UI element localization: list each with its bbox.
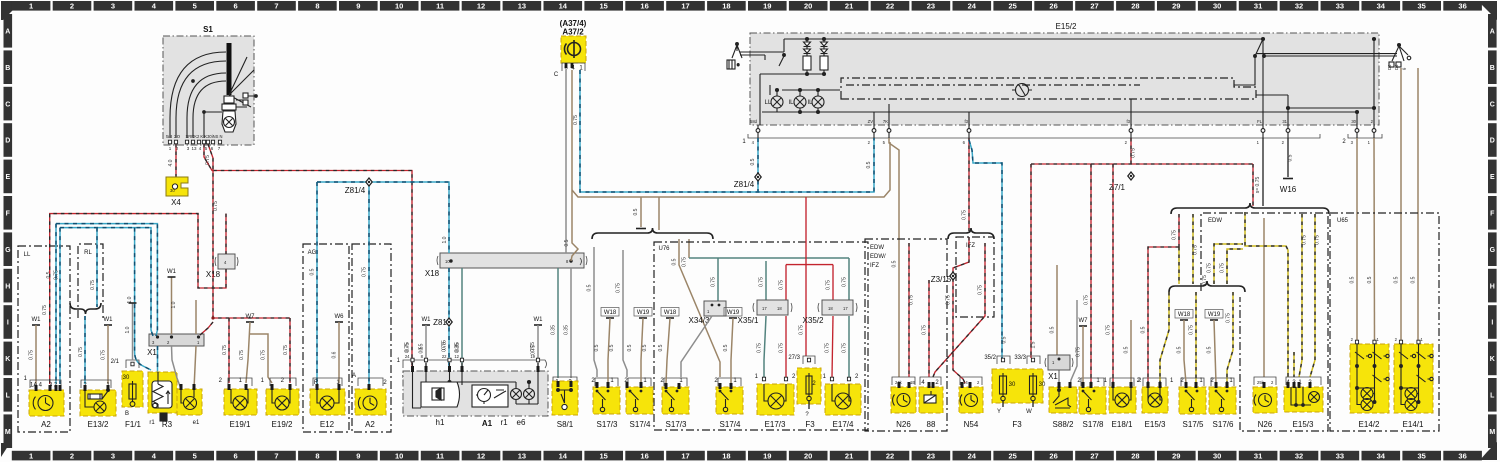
connector X4 (166, 177, 188, 196)
svg-text:27: 27 (1090, 451, 1098, 460)
wire teal bus U76 (689, 257, 849, 259)
symbol N54 (960, 394, 977, 407)
connector X18 long bar (437, 253, 587, 268)
svg-text:S17/8: S17/8 (1083, 420, 1104, 429)
svg-text:S1: S1 (203, 25, 213, 34)
lamp E15/3 right (1284, 387, 1323, 412)
svg-text:0.75: 0.75 (842, 343, 848, 353)
svg-text:RL: RL (84, 250, 92, 256)
svg-text:8: 8 (315, 451, 319, 460)
E18/1 connector (1110, 378, 1134, 386)
svg-text:1.0: 1.0 (171, 301, 177, 308)
ground terminal W16 (1283, 178, 1293, 180)
E14/1 internals (1399, 344, 1433, 405)
clock symbol A2 (33, 396, 53, 411)
33/3 connector (1027, 356, 1040, 364)
svg-text:5: 5 (193, 451, 197, 460)
svg-text:0.5: 0.5 (723, 344, 729, 351)
svg-text:0.75: 0.75 (239, 350, 245, 360)
svg-text:25: 25 (1009, 2, 1017, 11)
svg-text:e6: e6 (517, 418, 526, 427)
svg-text:17: 17 (681, 2, 689, 11)
wire blue A37/2 pin1 to ZV (580, 70, 874, 192)
wire gray X1 to e1 pin1 (172, 346, 182, 389)
wire red to fuse F3 27/3 (805, 265, 807, 356)
svg-text:33: 33 (1336, 2, 1344, 11)
svg-text:4.0: 4.0 (168, 159, 174, 166)
solder joint Z81 (445, 317, 453, 327)
wire blue f3 branch to F3 (969, 140, 1002, 358)
switch S17/8 (1079, 387, 1106, 414)
svg-text:19: 19 (763, 2, 771, 11)
svg-text:23: 23 (927, 451, 935, 460)
wire yellow to S17/6 pin2 (1227, 292, 1233, 383)
terminal W6 (335, 314, 345, 322)
wire red to E15/3L pin2 (1148, 247, 1179, 383)
antenna fork symbol D4 (1389, 44, 1411, 68)
terminal W1 b (104, 317, 114, 325)
clock symbol A2r (358, 396, 377, 410)
svg-text:7K: 7K (883, 119, 888, 124)
svg-text:U76: U76 (658, 246, 670, 252)
E13/2 connector (81, 380, 111, 388)
wire blue LL bus upper (56, 224, 157, 336)
switch symbol S17/4 (629, 390, 643, 412)
wire yellow E15/3r pin3 (1293, 352, 1295, 377)
svg-text:W1: W1 (104, 317, 114, 323)
lamp e6a in A1 (511, 389, 522, 400)
svg-text:0.75: 0.75 (946, 295, 952, 305)
splice brace IFZ (948, 228, 994, 239)
svg-text:30: 30 (1213, 2, 1221, 11)
svg-text:16: 16 (640, 451, 648, 460)
svg-text:0.75: 0.75 (616, 283, 622, 293)
wire gray W1e to A1 pin19 (537, 325, 539, 378)
S17/3 connector (595, 378, 618, 386)
svg-text:E15/3: E15/3 (1145, 420, 1166, 429)
svg-text:35: 35 (1418, 2, 1426, 11)
wire brown wiper bus to 7K (572, 142, 890, 197)
svg-text:1: 1 (29, 451, 33, 460)
svg-text:0.75: 0.75 (362, 267, 368, 277)
svg-text:I: I (7, 320, 9, 327)
svg-text:H: H (1490, 283, 1495, 290)
svg-text:0.75: 0.75 (978, 285, 984, 295)
svg-text:X35/2: X35/2 (803, 316, 824, 325)
svg-text:LL: LL (24, 252, 31, 258)
wire yellow to small brace b (1192, 214, 1194, 284)
wire teal X35/1 to E17/3 pin1 (764, 316, 766, 377)
svg-text:32: 32 (1295, 451, 1303, 460)
wire brown W1c to X1 (171, 277, 173, 334)
svg-text:0.75: 0.75 (42, 305, 48, 315)
wire yellow EDW loop a (1214, 244, 1243, 284)
switch symbol S17/4 (719, 390, 733, 412)
wire yellow EDW loop b (1227, 249, 1243, 284)
svg-text:X1: X1 (147, 348, 157, 357)
wire red X18s top (225, 214, 227, 254)
svg-text:3: 3 (111, 451, 115, 460)
N54 connector (960, 377, 982, 385)
svg-text:F3: F3 (1012, 420, 1022, 429)
wire green X18 to S8/1 pin1 (557, 268, 559, 378)
svg-text:r1: r1 (149, 420, 155, 426)
svg-text:Z81/4: Z81/4 (345, 186, 366, 195)
svg-text:FL: FL (1257, 119, 1263, 124)
svg-text:IFZ: IFZ (870, 263, 879, 269)
svg-text:23: 23 (927, 2, 935, 11)
svg-text:27: 27 (1090, 2, 1098, 11)
svg-text:W16: W16 (1280, 185, 1297, 194)
svg-text:36: 36 (1458, 2, 1466, 11)
wire red to X35/2 pin18 (832, 265, 834, 301)
svg-text:Z81/4: Z81/4 (734, 180, 755, 189)
svg-text:28: 28 (1131, 451, 1139, 460)
wire blue 58d drop (757, 138, 759, 192)
svg-text:S88/2: S88/2 (1053, 420, 1074, 429)
svg-text:I: I (1491, 320, 1493, 327)
svg-text:0.75: 0.75 (442, 342, 448, 352)
glovebox lamp E12 (310, 389, 345, 415)
svg-text:W: W (1026, 409, 1032, 415)
svg-text:10: 10 (395, 451, 403, 460)
wire W18b to S17/3u (666, 318, 670, 383)
wire tan to S17/4u pin1 (679, 239, 720, 377)
lamp IL in E15/2 (794, 96, 806, 108)
wire X1 to S88/2 (1058, 370, 1060, 387)
svg-text:19: 19 (763, 451, 771, 460)
svg-text:0.75: 0.75 (779, 343, 785, 353)
lamp box E17/4 (830, 377, 833, 381)
wire brown X1 to e1 pin2 (194, 346, 196, 389)
svg-text:W18: W18 (1178, 312, 1191, 318)
wire red X18s to A2 (50, 214, 226, 384)
svg-text:K: K (1490, 356, 1495, 363)
svg-text:13: 13 (518, 2, 526, 11)
splice brace wiper feed (592, 228, 713, 239)
switch S17/3 (593, 387, 620, 414)
svg-text:13: 13 (518, 451, 526, 460)
wire gray W1d to A1 pin8 (425, 325, 427, 378)
svg-text:2/1: 2/1 (111, 359, 120, 365)
svg-text:0.75: 0.75 (799, 325, 805, 335)
svg-text:C: C (1490, 101, 1495, 108)
svg-text:0.6: 0.6 (332, 351, 338, 358)
svg-text:14: 14 (963, 380, 968, 385)
terminal W19b (727, 310, 740, 318)
svg-text:6: 6 (234, 2, 238, 11)
wire teal to X34/3 (717, 258, 719, 301)
svg-text:0.75: 0.75 (759, 277, 765, 287)
svg-text:0.5: 0.5 (1367, 276, 1373, 283)
svg-text:L: L (6, 393, 11, 400)
svg-text:24: 24 (405, 354, 410, 359)
wire gray X34/3 to S17/3u pin2 (681, 316, 712, 377)
svg-text:0.75: 0.75 (1226, 313, 1232, 323)
svg-text:0.75: 0.75 (1106, 325, 1112, 335)
terminal W1 e (534, 317, 544, 325)
svg-text:E15/2: E15/2 (1056, 22, 1077, 31)
fuse F1/1 (122, 371, 143, 407)
fuse box F3 (992, 369, 1043, 403)
svg-text:0.75: 0.75 (222, 345, 228, 355)
wire green X18 to A1 pin12 (461, 268, 463, 378)
svg-text:D: D (5, 138, 10, 145)
svg-text:12: 12 (477, 451, 485, 460)
svg-text:0.75: 0.75 (213, 201, 219, 211)
svg-text:Z3/15: Z3/15 (931, 275, 952, 284)
svg-text:10: 10 (395, 2, 403, 11)
svg-text:E14/2: E14/2 (1359, 420, 1380, 429)
wire brown D4b to E14/1 (1417, 68, 1419, 342)
wire red brace drop (1178, 214, 1180, 247)
F3 stub W (1032, 401, 1034, 407)
svg-text:0.5: 0.5 (419, 343, 425, 350)
svg-text:7: 7 (274, 2, 278, 11)
svg-text:22: 22 (886, 2, 894, 11)
svg-text:30: 30 (1213, 451, 1221, 460)
svg-text:D4: D4 (1394, 64, 1399, 70)
svg-text:0.5: 0.5 (46, 271, 52, 278)
lamp LL in E15/2 (771, 96, 783, 108)
svg-text:18: 18 (828, 306, 833, 311)
splice brace EDW small (1169, 281, 1245, 292)
switch S17/3 (662, 387, 689, 414)
svg-text:W19: W19 (637, 310, 650, 316)
wire yellow to S17/5 pin2 (1195, 292, 1197, 383)
wire yellow to E15/3r pin4 (1245, 212, 1288, 377)
lamp E18/1 (1109, 387, 1136, 413)
svg-text:18: 18 (777, 306, 782, 311)
wire blue X18 to A1 pin22 (448, 268, 450, 378)
S17/8 connector (1081, 378, 1104, 386)
A1 internals (413, 363, 539, 408)
E19/1 connector (228, 378, 252, 386)
svg-text:17: 17 (843, 306, 848, 311)
svg-text:0.75: 0.75 (54, 270, 60, 280)
E19/2 connector (270, 378, 296, 386)
svg-text:B: B (1490, 65, 1495, 72)
wire red to 88 pin1 (928, 280, 930, 377)
wire W18c to S17/5 (1184, 320, 1186, 383)
resistor R3 (148, 372, 177, 413)
fuse element F3s (806, 373, 812, 397)
wire W19b to S17/4u (731, 318, 733, 383)
svg-text:0.75: 0.75 (1315, 235, 1321, 245)
fog lamp E19/1 (224, 389, 257, 415)
svg-text:Z81: Z81 (433, 318, 447, 327)
svg-text:E17/4: E17/4 (833, 420, 854, 429)
wire teal to X35/1 pin17 (765, 261, 767, 301)
svg-text:1.5: 1.5 (1031, 341, 1037, 348)
svg-text:34: 34 (1377, 2, 1386, 11)
wire yellow to E15/3r pin2 (1310, 214, 1315, 377)
svg-text:A: A (352, 373, 356, 379)
svg-text:S17/5: S17/5 (1183, 420, 1204, 429)
E15/3r internals (1291, 387, 1311, 406)
svg-text:0.5: 0.5 (1141, 326, 1147, 333)
svg-text:0.5: 0.5 (1394, 276, 1400, 283)
svg-text:33/3: 33/3 (1014, 355, 1026, 361)
terminal W1 a (32, 317, 42, 325)
svg-text:W1: W1 (422, 317, 432, 323)
svg-text:E17/3: E17/3 (765, 420, 786, 429)
F3 stub Y (1002, 401, 1004, 407)
svg-text:6: 6 (234, 451, 238, 460)
lamp symbol E17/3 (768, 393, 784, 409)
svg-text:11: 11 (436, 2, 444, 11)
connector X1 bar (149, 334, 204, 346)
svg-text:X35/1: X35/1 (738, 316, 759, 325)
svg-text:ZV: ZV (868, 119, 874, 124)
E13/2 symbol (88, 389, 109, 399)
lamp E17/4 (825, 384, 861, 415)
27/3 connector (803, 356, 815, 364)
svg-text:0.75: 0.75 (779, 280, 785, 290)
wire red to F3 fuse 33/3 (1030, 164, 1032, 358)
svg-text:0.5: 0.5 (1288, 154, 1294, 161)
wire red tap to X1 pin1 (200, 322, 213, 335)
svg-text:26: 26 (1049, 2, 1057, 11)
svg-text:0.5: 0.5 (892, 260, 898, 267)
svg-text:22: 22 (886, 451, 894, 460)
svg-text:E12: E12 (320, 420, 335, 429)
svg-text:L: L (1490, 393, 1495, 400)
svg-text:F: F (1490, 211, 1495, 218)
svg-text:0.75: 0.75 (1302, 235, 1308, 245)
solder joint Z3/15 (949, 271, 957, 281)
wire terminal pins at component boxes (35, 366, 1312, 391)
connector X18 small (215, 254, 238, 269)
E15/3L connector (1143, 378, 1166, 386)
wire blue X1 to R3 (157, 346, 159, 383)
svg-text:IL: IL (788, 100, 794, 106)
svg-text:0.75: 0.75 (1202, 275, 1208, 285)
svg-text:R3: R3 (162, 420, 173, 429)
svg-text:W7: W7 (246, 314, 256, 320)
N26 connector (892, 377, 915, 385)
wire brown A37/2 pin4 to X18 pin8 (571, 70, 578, 261)
fuse 35/2 (1000, 373, 1007, 397)
svg-text:28: 28 (1131, 2, 1139, 11)
terminal W1 d (422, 317, 432, 325)
connector X35/2 (818, 300, 857, 315)
svg-text:22: 22 (442, 354, 447, 359)
svg-text:A: A (5, 29, 10, 36)
wire red S1 pin4 to A1 (204, 144, 412, 378)
svg-text:A37/2: A37/2 (562, 28, 584, 37)
svg-text:0.75: 0.75 (90, 280, 96, 290)
svg-text:88: 88 (927, 420, 936, 429)
svg-text:SRRK2 K K30iNS N: SRRK2 K K30iNS N (186, 134, 223, 139)
lamp in E13/2 (94, 401, 106, 413)
heated lock E13/2 (80, 390, 116, 416)
wire gray X18 to S8/1 pin2 (570, 268, 572, 378)
wire red to E19/1 pin2 (228, 318, 230, 383)
lamp unit E14/2 (1350, 344, 1389, 413)
svg-text:E13/2: E13/2 (88, 420, 109, 429)
svg-text:0.75: 0.75 (573, 115, 579, 125)
svg-text:0.75: 0.75 (1131, 148, 1137, 158)
svg-text:C: C (5, 101, 10, 108)
svg-text:G: G (1490, 247, 1496, 254)
wire red IFZ to N54 (953, 237, 969, 383)
svg-text:58 30: 58 30 (166, 134, 181, 139)
svg-text:17: 17 (762, 306, 767, 311)
connector X35/1 (753, 300, 792, 315)
junction dot (211, 316, 214, 319)
svg-text:0.5: 0.5 (633, 208, 639, 215)
svg-text:A: A (1490, 29, 1495, 36)
svg-text:B: B (125, 411, 129, 417)
svg-text:0.5: 0.5 (1207, 346, 1213, 353)
svg-text:A2: A2 (41, 420, 51, 429)
svg-text:W18: W18 (664, 310, 677, 316)
svg-text:AG: AG (308, 250, 317, 256)
fog lamp E19/2 (266, 389, 299, 415)
svg-text:h1: h1 (436, 418, 445, 427)
lamp box E17/3 (762, 377, 765, 381)
lamp symbol E18/1 (1115, 393, 1129, 407)
svg-text:0.5: 0.5 (1411, 276, 1417, 283)
svg-text:F: F (6, 211, 11, 218)
wire blue to A2 pin3 (55, 224, 57, 384)
svg-text:S8/1: S8/1 (557, 420, 574, 429)
svg-text:0.75: 0.75 (29, 350, 35, 360)
terminal W18b (664, 310, 677, 318)
svg-text:15: 15 (600, 451, 608, 460)
svg-text:0.75: 0.75 (1220, 263, 1226, 273)
terminal W7b (1079, 318, 1089, 326)
relay N54 (959, 387, 983, 413)
switch symbol S17/6 (1215, 390, 1229, 412)
F1/1 connector (126, 360, 139, 368)
wire blue to E13/2 (84, 316, 86, 384)
wire red to X35/1 pin18 (785, 265, 787, 301)
dashed box RL (78, 244, 103, 318)
wire black 31 to W16 (1287, 138, 1289, 177)
svg-text:1.0: 1.0 (442, 236, 448, 243)
svg-text:0.35: 0.35 (564, 325, 570, 335)
svg-text:0.75: 0.75 (205, 155, 211, 165)
svg-text:24: 24 (968, 2, 977, 11)
lamp symbol E15/3r (1309, 392, 1320, 403)
wire tan to N26r (1263, 218, 1265, 377)
relay N26 (891, 387, 916, 413)
svg-text:W19: W19 (1208, 312, 1221, 318)
terminal W18a (604, 310, 617, 318)
clock A2 right (355, 389, 386, 415)
dashed box EDW/IFZ left (865, 239, 947, 431)
svg-text:W19: W19 (727, 310, 740, 316)
wire tan brace to teal bus (688, 239, 690, 258)
W18/W19 label boxes (601, 308, 619, 317)
svg-text:0.75: 0.75 (405, 342, 411, 352)
svg-text:29: 29 (1172, 451, 1180, 460)
terminal W18c (1178, 312, 1191, 320)
svg-text:0.5: 0.5 (1177, 346, 1183, 353)
A2r connector (358, 378, 383, 386)
svg-text:0.75: 0.75 (101, 350, 107, 360)
wire red to S17/8 (1090, 164, 1092, 383)
svg-text:Z7/1: Z7/1 (1109, 183, 1126, 192)
35/2 connector (997, 356, 1010, 364)
svg-text:S17/3: S17/3 (597, 420, 618, 429)
svg-text:W7: W7 (1079, 318, 1089, 324)
lamp e6b in A1 (524, 389, 535, 400)
svg-text:27/3: 27/3 (788, 355, 800, 361)
wire red to N26 pin2 (908, 243, 910, 377)
